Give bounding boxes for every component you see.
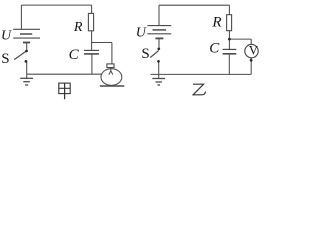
svg-text:C: C — [209, 40, 220, 56]
svg-text:S: S — [141, 46, 149, 62]
svg-text:S: S — [1, 51, 9, 67]
svg-text:C: C — [69, 47, 80, 63]
svg-text:R: R — [73, 20, 83, 35]
svg-text:U: U — [1, 28, 12, 43]
svg-text:U: U — [136, 26, 147, 41]
svg-text:R: R — [211, 15, 221, 31]
svg-text:V: V — [249, 43, 258, 57]
